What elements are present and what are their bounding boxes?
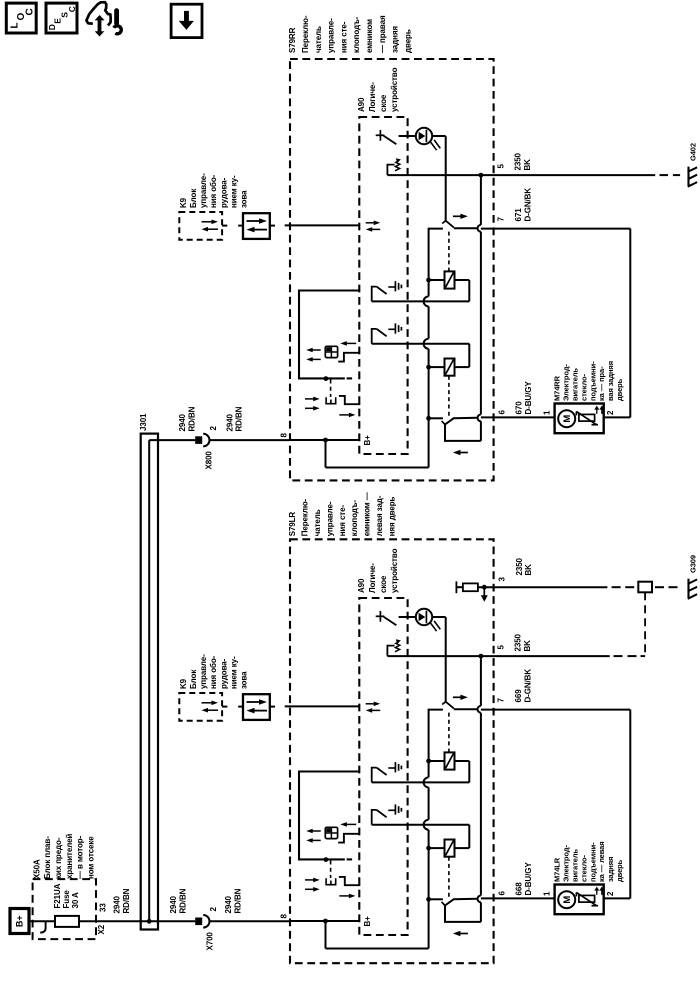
svg-text:D-BU/GY: D-BU/GY [524,862,533,896]
svg-text:2350: 2350 [515,557,524,575]
svg-text:зова: зова [240,190,249,208]
svg-text:клоподъ-: клоподъ- [352,16,361,53]
svg-text:30 A: 30 A [71,892,80,909]
svg-text:7: 7 [497,217,506,222]
svg-text:2940: 2940 [113,895,122,913]
svg-text:Переклю-: Переклю- [301,498,310,536]
svg-text:D-BU/GY: D-BU/GY [524,381,533,415]
svg-text:G309: G309 [688,555,697,573]
svg-text:вигатель: вигатель [571,849,580,882]
svg-text:устройство: устройство [390,67,399,112]
svg-text:C: C [25,8,36,15]
svg-text:рудова-: рудова- [219,177,228,208]
svg-text:вая задняя: вая задняя [606,361,615,401]
svg-text:8: 8 [279,433,288,438]
svg-text:A90: A90 [357,97,366,112]
svg-text:3: 3 [498,577,507,582]
svg-text:L: L [10,22,21,28]
svg-text:6: 6 [498,891,507,896]
svg-text:няя дверь: няя дверь [387,496,396,536]
svg-text:ния сте-: ния сте- [338,505,347,537]
svg-text:RD/BN: RD/BN [188,406,197,431]
svg-text:Электрод-: Электрод- [562,845,571,882]
svg-text:671: 671 [514,208,523,222]
svg-text:устройство: устройство [390,548,399,593]
svg-text:ка — пра-: ка — пра- [597,366,606,401]
svg-text:RD/BN: RD/BN [179,888,188,913]
svg-text:управле-: управле- [327,18,336,53]
svg-text:Fuse: Fuse [62,890,71,909]
svg-text:подъемни-: подъемни- [588,361,597,401]
svg-text:ния обо-: ния обо- [209,655,218,689]
svg-text:— правая: — правая [378,15,387,53]
svg-text:емником: емником [365,19,374,53]
svg-text:X50A: X50A [32,859,41,879]
svg-text:дверь: дверь [615,378,624,401]
svg-text:зова: зова [240,671,249,689]
svg-text:S79LR: S79LR [288,512,297,537]
svg-text:2940: 2940 [178,413,187,431]
svg-text:2: 2 [606,891,615,896]
svg-text:B+: B+ [363,916,372,927]
svg-text:вигатель: вигатель [571,368,580,401]
svg-text:Электрод-: Электрод- [562,364,571,401]
svg-text:7: 7 [497,698,506,703]
svg-text:X2: X2 [97,924,106,934]
svg-text:X800: X800 [205,451,214,470]
svg-text:стекло-: стекло- [579,373,588,401]
svg-text:стекло-: стекло- [579,854,588,882]
svg-text:управле-: управле- [199,173,208,208]
svg-text:B+: B+ [363,435,372,446]
svg-text:ское: ское [379,575,388,593]
svg-text:X700: X700 [206,932,215,951]
svg-text:BK: BK [523,640,532,652]
svg-text:2350: 2350 [514,633,523,651]
svg-text:K9: K9 [179,197,188,208]
svg-text:M: M [562,415,573,423]
svg-text:ское: ское [379,94,388,112]
svg-text:чатель: чатель [313,509,322,536]
svg-text:Блок: Блок [189,188,198,208]
svg-text:M74RR: M74RR [553,375,562,401]
svg-text:669: 669 [514,689,523,703]
svg-text:2940: 2940 [225,413,234,431]
svg-text:левая зад-: левая зад- [375,495,384,536]
svg-text:задняя: задняя [391,26,400,53]
svg-text:B+: B+ [15,915,25,927]
svg-text:управле-: управле- [325,501,334,536]
svg-text:ка — левая: ка — левая [597,842,606,883]
svg-text:2940: 2940 [224,895,233,913]
svg-text:ния обо-: ния обо- [209,174,218,208]
svg-text:управле-: управле- [199,654,208,689]
svg-text:Блок плав-: Блок плав- [43,836,52,879]
svg-text:рудова-: рудова- [219,658,228,689]
svg-text:A90: A90 [357,578,366,593]
svg-text:2350: 2350 [514,152,523,170]
svg-text:нием ку-: нием ку- [229,175,238,208]
svg-text:ном отсеке: ном отсеке [86,836,95,879]
svg-text:ких предо-: ких предо- [54,837,63,879]
svg-text:D-GN/BK: D-GN/BK [524,669,533,703]
svg-text:J301: J301 [139,413,148,431]
svg-text:668: 668 [515,882,524,896]
svg-text:подъемни-: подъемни- [588,842,597,882]
svg-text:BK: BK [523,159,532,171]
svg-text:RD/BN: RD/BN [234,888,243,913]
svg-text:670: 670 [515,401,524,415]
svg-text:5: 5 [497,164,506,169]
svg-text:— в мотор-: — в мотор- [76,835,85,879]
svg-text:2: 2 [606,410,615,415]
svg-text:ния сте-: ния сте- [339,21,348,53]
svg-text:дверь: дверь [615,859,624,882]
svg-text:8: 8 [279,914,288,919]
svg-text:D-GN/BK: D-GN/BK [524,188,533,222]
svg-text:S79RR: S79RR [288,27,297,53]
svg-text:Переклю-: Переклю- [301,15,310,53]
svg-text:M: M [562,896,573,904]
svg-text:M74LR: M74LR [553,857,562,882]
svg-text:чатель: чатель [314,26,323,53]
svg-text:D: D [47,24,57,30]
svg-text:6: 6 [498,410,507,415]
svg-text:G402: G402 [688,143,697,161]
svg-text:задняя: задняя [606,857,615,882]
svg-text:Блок: Блок [189,669,198,689]
svg-text:RD/BN: RD/BN [235,406,244,431]
svg-text:2: 2 [209,426,218,431]
svg-text:Логиче-: Логиче- [368,563,377,593]
svg-text:5: 5 [497,645,506,650]
svg-text:Логиче-: Логиче- [368,82,377,112]
svg-text:хранителей: хранителей [65,834,74,879]
svg-text:RD/BN: RD/BN [122,888,131,913]
svg-text:K9: K9 [179,678,188,689]
svg-text:1: 1 [543,410,552,415]
svg-text:1: 1 [543,891,552,896]
svg-text:33: 33 [99,903,108,912]
svg-text:F21UA: F21UA [53,883,62,908]
svg-text:BK: BK [524,564,533,576]
svg-text:емником —: емником — [363,492,372,536]
svg-text:нием ку-: нием ку- [229,656,238,689]
svg-text:дверь: дверь [403,29,412,53]
svg-text:2: 2 [209,907,218,912]
svg-text:C: C [67,6,77,12]
svg-text:клоподъ-: клоподъ- [350,500,359,537]
svg-text:2940: 2940 [169,895,178,913]
